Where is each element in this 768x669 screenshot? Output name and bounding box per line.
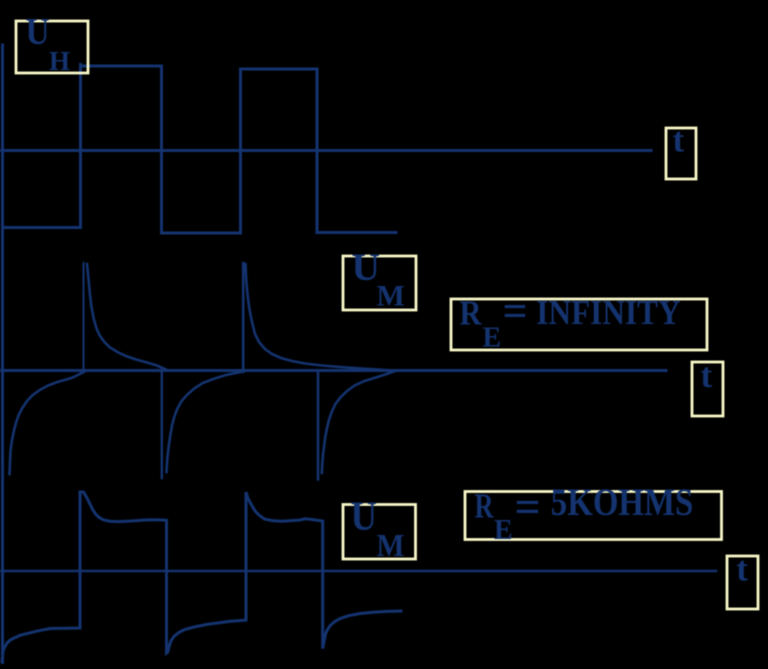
svg-text:5KOHMS: 5KOHMS — [551, 481, 694, 524]
svg-text:H: H — [49, 46, 70, 76]
svg-text:E: E — [483, 323, 502, 354]
svg-text:E: E — [494, 515, 513, 546]
svg-text:M: M — [377, 527, 405, 563]
svg-text:t: t — [736, 550, 748, 589]
svg-text:U: U — [351, 493, 378, 539]
svg-text:=: = — [515, 481, 541, 532]
svg-text:R: R — [475, 487, 495, 526]
svg-text:R: R — [460, 294, 483, 333]
svg-text:M: M — [377, 280, 405, 313]
svg-text:=: = — [503, 287, 528, 336]
svg-text:t: t — [701, 356, 713, 395]
svg-text:U: U — [26, 11, 50, 53]
svg-text:t: t — [673, 121, 685, 160]
svg-text:INFINITY: INFINITY — [536, 293, 680, 332]
